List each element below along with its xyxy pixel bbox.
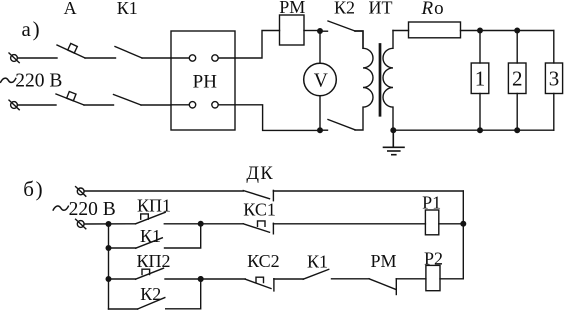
svg-text:К2: К2 — [334, 0, 355, 18]
wire — [320, 30, 328, 32]
svg-text:3: 3 — [549, 67, 560, 91]
wire — [142, 57, 171, 59]
contact KP1 (NO pushbutton) — [136, 212, 166, 224]
wire — [273, 190, 463, 192]
terminal X1 — [9, 53, 19, 63]
relay coil P2 — [426, 265, 440, 290]
wire top rail — [461, 30, 554, 32]
node top — [318, 29, 323, 34]
wire — [17, 104, 56, 106]
svg-text:КС2: КС2 — [247, 251, 280, 271]
svg-text:б): б) — [23, 177, 44, 201]
node — [106, 222, 111, 227]
wire — [273, 223, 425, 225]
svg-text:РМ: РМ — [370, 251, 396, 271]
wire — [440, 278, 463, 280]
voltmeter V — [304, 63, 337, 96]
svg-text:220 В: 220 В — [69, 199, 116, 220]
node — [515, 128, 520, 133]
svg-text:КП2: КП2 — [136, 251, 170, 271]
svg-text:РМ: РМ — [279, 0, 305, 17]
load 1 — [471, 63, 489, 94]
PH terminal pin 4 — [212, 102, 235, 108]
svg-text:К1: К1 — [117, 0, 138, 18]
wire — [165, 278, 245, 280]
svg-text:1: 1 — [475, 67, 486, 91]
wire branch 3 drop — [553, 31, 555, 64]
breaker A pole 2 — [56, 91, 84, 105]
transformer IT core — [379, 45, 382, 116]
wire — [274, 278, 303, 280]
wire — [165, 224, 201, 248]
wire — [84, 190, 243, 192]
svg-text:ИТ: ИТ — [369, 0, 393, 18]
node — [478, 28, 483, 33]
wire — [396, 278, 426, 280]
wire PH to PM — [235, 31, 280, 59]
PH terminal pin 3 — [171, 102, 196, 108]
wire — [320, 129, 328, 131]
relay PM box — [280, 15, 305, 45]
node — [106, 246, 111, 251]
wire — [85, 57, 116, 59]
contact K1 (row 4) — [303, 269, 329, 279]
ground — [384, 130, 405, 155]
wire branch 1 drop — [479, 31, 481, 64]
node — [106, 277, 111, 282]
contact KC2 (NC pushbutton) — [245, 277, 274, 291]
node transformer bottom — [391, 128, 396, 133]
wire — [439, 223, 464, 225]
wire — [553, 94, 555, 131]
wire — [355, 31, 363, 48]
wire — [479, 94, 481, 131]
wire voltmeter bottom — [319, 96, 321, 130]
wire — [166, 279, 201, 309]
wire — [164, 223, 243, 225]
contact PM (NC) — [369, 279, 396, 295]
transformer IT primary winding — [355, 31, 373, 130]
contact KC1 (NC pushbutton) — [243, 221, 273, 234]
contact K2 pole 2 — [328, 120, 355, 130]
terminal X2 — [9, 100, 19, 110]
svg-text:V: V — [314, 70, 328, 91]
contact K1 pole 2 — [114, 95, 142, 106]
wire voltmeter top — [319, 31, 321, 63]
contact K2 (row 5) — [138, 298, 165, 309]
label ~220 V (bottom) — [53, 199, 116, 220]
svg-text:Rо: Rо — [421, 0, 444, 19]
PH terminal pin 1 — [171, 55, 196, 61]
svg-text:А: А — [64, 0, 77, 18]
wire — [393, 30, 409, 32]
wire branch 2 drop — [516, 31, 518, 64]
svg-text:ДК: ДК — [246, 164, 274, 184]
node — [198, 277, 203, 282]
node — [198, 277, 203, 282]
wire — [109, 247, 136, 249]
contact K1 (row 3) — [136, 238, 163, 248]
wire — [332, 278, 370, 280]
transformer IT secondary winding — [383, 31, 393, 131]
svg-text:К1: К1 — [307, 252, 328, 272]
svg-text:КС1: КС1 — [243, 200, 276, 220]
relay PH box — [171, 31, 235, 130]
wire — [109, 308, 138, 310]
svg-text:220 В: 220 В — [15, 70, 62, 91]
terminal Y1 — [76, 187, 86, 197]
wire — [17, 57, 57, 59]
breaker A pole 1 — [57, 43, 85, 58]
load 2 — [508, 63, 526, 94]
label ~220 V (top) — [1, 70, 63, 91]
svg-text:а): а) — [22, 17, 42, 41]
wire — [84, 104, 114, 106]
wire right vertical — [462, 191, 464, 279]
wire — [109, 278, 136, 280]
wire left vertical — [108, 224, 110, 309]
wire — [84, 223, 135, 225]
wire — [141, 104, 171, 106]
contact K1 pole 1 — [115, 47, 142, 59]
node — [515, 28, 520, 33]
load 3 — [545, 63, 562, 94]
wire — [516, 94, 518, 131]
contact DK (NC) — [243, 190, 273, 200]
node — [478, 128, 483, 133]
contact K2 pole 1 — [328, 21, 355, 31]
node — [461, 221, 466, 226]
svg-text:2: 2 — [512, 67, 523, 91]
resistor Ro — [409, 22, 461, 38]
node bottom — [318, 128, 323, 133]
wire bottom rail — [393, 129, 554, 131]
terminal Y2 — [76, 219, 86, 229]
node — [198, 222, 203, 227]
contact KP2 (NO pushbutton) — [136, 268, 164, 279]
relay coil P1 — [425, 210, 438, 235]
svg-text:РН: РН — [193, 72, 218, 93]
PH terminal pin 2 — [212, 55, 235, 61]
wire — [304, 30, 317, 32]
wire PH to bottom node — [235, 105, 317, 131]
